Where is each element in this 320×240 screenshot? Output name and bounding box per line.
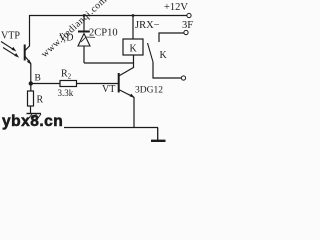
junction dot rail-coil [132,14,135,17]
svg-text:2CP10: 2CP10 [89,28,118,39]
terminal +12V [187,13,191,17]
svg-text:VD: VD [59,33,73,44]
wire: diode to collector node [84,62,134,64]
watermark red diagonal [39,0,109,60]
svg-text:3F: 3F [182,20,193,31]
terminal contact bottom [181,76,185,80]
wire: node B to R1 [30,84,32,92]
svg-text:ybx8.cn: ybx8.cn [2,113,63,130]
ground right [151,140,166,142]
svg-text:3.3k: 3.3k [58,88,74,98]
svg-text:VT: VT [102,84,115,95]
wire: coil to rail [132,16,134,40]
wire: R2 to VT base [77,83,119,85]
wire: rail to VTP collector [29,15,31,47]
svg-text:K: K [160,50,168,61]
artifact underline under 2C [86,36,96,39]
svg-text:K: K [130,44,138,55]
relay contact blade [148,43,154,62]
junction dot rail-diode [83,14,86,17]
relay contact bottom lead [153,62,181,78]
svg-text:+12V: +12V [164,2,188,13]
wire: R1 to ground [30,106,32,114]
wire: rail to right ground [157,128,159,141]
light arrow 2 [3,48,19,58]
wire: node B to R2 [31,83,60,85]
wire: emitter to node B [30,64,32,84]
svg-text:JRX−: JRX− [135,20,160,31]
resistor R1 [28,91,34,106]
wire: +12V top rail [29,15,187,17]
light arrow 1 [1,42,16,52]
terminal contact top [184,30,188,34]
svg-text:3DG12: 3DG12 [135,86,163,96]
svg-text:VTP: VTP [1,31,20,42]
bottom rail [64,127,158,129]
transistor VT 3DG12 [119,68,135,98]
node B junction [29,81,33,85]
svg-text:B: B [35,74,41,84]
wire: emitter down [133,97,135,128]
resistor R2 [60,81,77,87]
diode VD 2CP10 [78,16,90,64]
wire: collector to coil [133,55,135,68]
relay coil K [123,39,143,55]
ground left [27,114,42,119]
svg-text:R: R [37,95,44,106]
phototransistor VTP [25,45,32,65]
relay contact K: top wire [159,33,184,42]
